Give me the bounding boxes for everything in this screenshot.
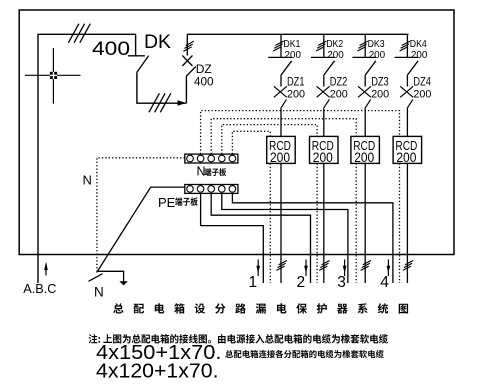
svg-text:400: 400 — [194, 75, 214, 89]
wire: branch 4 to RCD — [406, 109, 408, 137]
breaker DZ contact X — [182, 56, 192, 67]
svg-text:2: 2 — [297, 274, 306, 291]
cable mark branch 3 out — [361, 261, 371, 271]
wire: PE branch 1 — [201, 193, 264, 283]
svg-text:200: 200 — [330, 88, 348, 100]
svg-text:200: 200 — [411, 50, 428, 61]
wire: DZ to bus — [186, 34, 188, 55]
svg-text:200: 200 — [285, 50, 302, 61]
RCD 3 box — [351, 136, 380, 163]
wire: branch 1 tap — [280, 34, 282, 57]
wire: branch 4 tap — [406, 34, 408, 57]
wire: DK output to DZ — [137, 72, 187, 103]
svg-text:DK: DK — [144, 32, 171, 53]
switch DK4 contact bar — [395, 56, 418, 58]
svg-text:DK3: DK3 — [368, 38, 385, 50]
svg-text:DZ3: DZ3 — [371, 77, 389, 89]
svg-text:400: 400 — [92, 39, 130, 60]
wire: incoming A.B.C phase riser — [38, 34, 136, 283]
ground symbol — [119, 281, 128, 285]
title 总配电箱设分路漏电保护器系统图 — [113, 303, 408, 313]
N terminal board — [185, 154, 238, 163]
breaker DZ2 contact X — [317, 86, 330, 97]
arrow on DK-DZ link — [178, 100, 187, 105]
switch DK4 blade — [407, 61, 418, 75]
svg-text:DK1: DK1 — [283, 38, 300, 50]
wire: N branch 1 (dotted) — [232, 131, 270, 154]
branch 4 output arrow — [387, 260, 389, 277]
switch DK3 blade — [365, 61, 376, 75]
wire: branch 2 phase out — [323, 163, 325, 283]
breaker DZ3 blade — [365, 99, 371, 108]
svg-text:DZ4: DZ4 — [413, 77, 431, 89]
svg-text:1: 1 — [249, 274, 258, 291]
switch DK2 contact bar — [311, 56, 334, 58]
svg-text:200: 200 — [413, 88, 431, 100]
node: N earthing junction — [89, 274, 103, 282]
svg-text:200: 200 — [354, 150, 374, 165]
wire: N branch 3 (dotted) — [211, 119, 356, 154]
svg-text:200: 200 — [327, 50, 344, 61]
svg-text:4: 4 — [380, 274, 389, 291]
svg-text:200: 200 — [287, 88, 305, 100]
cable mark on DZ riser — [183, 41, 193, 51]
wire: PE branch 4 — [232, 193, 393, 283]
wire: N branch 4 (dotted) — [201, 111, 400, 155]
wire: PE feed diagonal — [97, 187, 185, 272]
svg-text:4x120+1x70.: 4x120+1x70. — [96, 360, 219, 383]
wire: N feed (dotted) — [97, 158, 185, 271]
branch 3 output arrow — [344, 260, 346, 277]
breaker DZ4 contact X — [400, 86, 413, 97]
switch DK3 contact bar — [352, 56, 375, 58]
PE terminal board — [185, 185, 238, 194]
cable mark branch 1 top — [273, 41, 283, 51]
wire: branch 3 phase out — [364, 163, 366, 283]
switch DK drop wire — [135, 34, 137, 56]
switch DK1 contact bar — [268, 56, 291, 58]
wire: PE branch 2 — [211, 193, 310, 283]
switch DK blade — [137, 56, 149, 73]
wire: PE branch 3 — [222, 193, 348, 283]
wire: branch 1 to RCD — [280, 109, 282, 137]
breaker DZ 400 riser — [185, 76, 187, 103]
svg-text:200: 200 — [369, 50, 386, 61]
distribution box enclosure frame — [19, 10, 454, 255]
incoming arrow — [45, 268, 47, 275]
svg-text:DZ1: DZ1 — [287, 77, 305, 89]
breaker DZ blade — [186, 67, 196, 77]
breaker DZ4 blade — [407, 99, 413, 108]
wire: branch 2 tap — [323, 34, 325, 57]
wire: branch 1 phase out — [280, 163, 282, 283]
wire: branch 1 mid — [280, 75, 282, 86]
RCD 2 box — [310, 136, 339, 163]
svg-text:200: 200 — [270, 150, 290, 165]
wire: branch 3 mid — [364, 75, 366, 86]
cable mark branch 1 out — [276, 261, 286, 271]
svg-text:PE: PE — [158, 195, 176, 210]
wire: branch 4 phase out — [406, 163, 408, 283]
svg-text:N: N — [83, 173, 92, 188]
svg-text:DZ2: DZ2 — [330, 77, 348, 89]
svg-text:DK2: DK2 — [326, 38, 343, 50]
cable mark branch 4 out — [403, 261, 413, 271]
wire: branch 2 mid — [323, 75, 325, 86]
node: crosshair break marker — [25, 48, 81, 104]
cable mark /// on DK-DZ link — [149, 93, 171, 112]
wire: main distribution bus — [187, 33, 408, 35]
wire: branch 3 tap — [364, 34, 366, 57]
breaker DZ2 blade — [323, 99, 329, 108]
cable mark branch 2 out — [319, 261, 329, 271]
breaker DZ3 contact X — [358, 86, 371, 97]
note line 1 — [89, 334, 389, 344]
svg-text:DK4: DK4 — [410, 38, 427, 50]
breaker DZ1 blade — [281, 99, 287, 108]
cable mark branch 2 top — [316, 41, 326, 51]
note line 2 — [225, 350, 383, 358]
svg-text:200: 200 — [396, 150, 416, 165]
breaker DZ1 contact X — [274, 86, 287, 97]
svg-text:N: N — [94, 285, 104, 300]
svg-text:200: 200 — [371, 88, 389, 100]
wire: branch 4 mid — [406, 75, 408, 86]
cable mark /// on incoming feed — [68, 24, 90, 43]
wire: N branch 2 (dotted) — [222, 125, 317, 155]
svg-text:N: N — [197, 165, 206, 179]
cable mark branch 4 top — [400, 41, 410, 51]
branch 1 output arrow — [257, 260, 259, 277]
svg-text:200: 200 — [313, 150, 333, 165]
RCD 4 box — [393, 136, 422, 163]
cable mark branch 3 top — [357, 41, 367, 51]
svg-text:A.B.C: A.B.C — [23, 281, 56, 296]
branch 2 output arrow — [305, 260, 307, 277]
switch DK2 blade — [324, 61, 335, 75]
wire: branch 2 to RCD — [323, 109, 325, 137]
svg-text:3: 3 — [337, 274, 346, 291]
RCD 1 box — [267, 136, 296, 163]
switch DK1 blade — [281, 61, 292, 75]
wire: N to ground — [97, 271, 124, 281]
wire: branch 3 to RCD — [364, 109, 366, 137]
